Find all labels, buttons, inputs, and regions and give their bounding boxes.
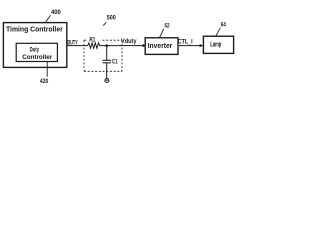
white gap behind R1 label <box>87 39 101 42</box>
svg-text:Timing Controller: Timing Controller <box>6 25 63 34</box>
leader line 62 <box>160 29 164 38</box>
svg-text:62: 62 <box>165 23 170 30</box>
leader line 400 <box>46 15 51 22</box>
svg-text:C1: C1 <box>112 58 118 65</box>
wire resistor to Inverter <box>99 45 143 47</box>
svg-text:400: 400 <box>51 9 61 16</box>
svg-text:DUTY: DUTY <box>68 40 79 47</box>
wire DUTY: Timing Controller to resistor <box>67 45 88 47</box>
wire node down to capacitor <box>106 46 108 60</box>
leader line 420 <box>46 62 48 77</box>
wire capacitor down to ground <box>106 63 108 78</box>
block Duty Controller (420) <box>16 43 57 61</box>
block Lamp (64) <box>203 36 233 53</box>
svg-text:420: 420 <box>40 78 49 85</box>
svg-text:Vduty: Vduty <box>121 38 137 45</box>
node junction dot <box>105 44 108 47</box>
capacitor C1 <box>103 59 111 61</box>
arrowhead into Lamp <box>200 44 204 47</box>
block Timing Controller (400) <box>3 23 66 68</box>
resistor R1 <box>88 43 100 48</box>
svg-text:Inverter: Inverter <box>148 41 173 50</box>
svg-text:CTL_I: CTL_I <box>178 38 193 45</box>
block Inverter (62) <box>145 38 178 55</box>
svg-text:Duty: Duty <box>30 46 40 53</box>
ground terminal circle <box>105 79 109 83</box>
svg-text:R1: R1 <box>89 37 95 44</box>
svg-text:Controller: Controller <box>22 54 52 61</box>
svg-text:Lamp: Lamp <box>210 41 221 48</box>
arrowhead into Inverter <box>143 44 147 47</box>
wire CTL_I: Inverter to Lamp <box>178 45 200 47</box>
leader line 500 <box>103 22 106 25</box>
svg-text:500: 500 <box>107 15 116 22</box>
leader line 64 <box>216 28 220 36</box>
dashed box 500 (RC filter) <box>84 40 122 71</box>
svg-text:64: 64 <box>221 21 226 28</box>
